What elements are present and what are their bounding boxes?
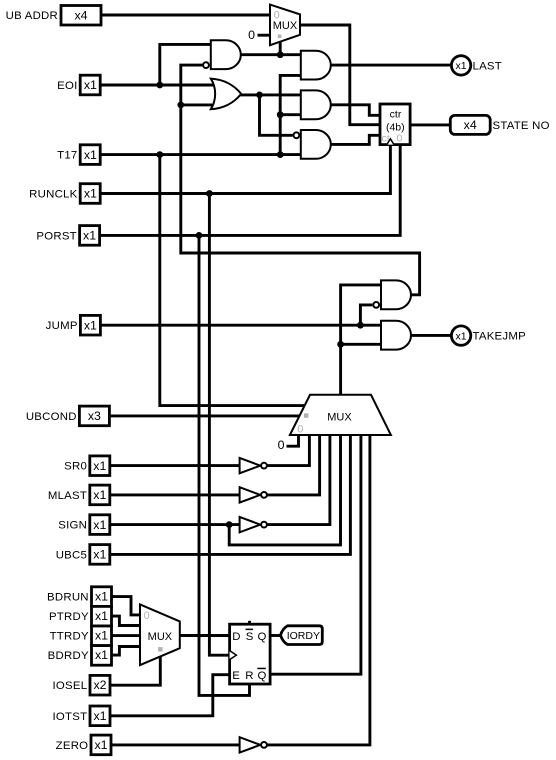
input box ZERO x1 (56, 735, 111, 755)
svg-text:IORDY: IORDY (287, 630, 320, 642)
and gate G6 (jump feedback, inverted lower input) (373, 280, 411, 309)
input box MLAST x1 (48, 485, 110, 505)
svg-text:0: 0 (278, 438, 285, 452)
wire small mux output to D (180, 634, 230, 637)
svg-text:SIGN: SIGN (58, 520, 87, 532)
svg-text:x1: x1 (84, 148, 97, 162)
wire and1 output to LAST (329, 64, 451, 67)
wire ZERO inverter output (267, 435, 370, 745)
svg-text:x1: x1 (84, 187, 97, 201)
wire big mux output net (337, 285, 381, 395)
output circle LAST x1 (451, 56, 502, 75)
mux U3 (BDRUN/PTRDY/TTRDY/BDRDY selector) (140, 604, 180, 665)
input box UBC5 x1 (56, 545, 110, 565)
wire SIGN net (108, 435, 341, 545)
wire PTRDY net (109, 614, 140, 626)
svg-text:LAST: LAST (473, 60, 503, 72)
svg-text:x4: x4 (74, 8, 87, 22)
svg-text:x3: x3 (88, 409, 101, 423)
input box SR0 x1 (64, 456, 110, 476)
inverter N4 (ZERO) (240, 737, 267, 752)
output box STATE NO x4 (450, 115, 549, 134)
input box TTRDY x1 (50, 626, 112, 646)
svg-text:R: R (245, 670, 253, 682)
svg-text:MUX: MUX (273, 20, 298, 32)
svg-text:D: D (232, 631, 240, 643)
svg-text:RUNCLK: RUNCLK (29, 189, 77, 201)
or gate G2 (211, 79, 241, 110)
inverter N3 (SIGN) (240, 517, 267, 532)
wire and2 output to ctr (329, 105, 380, 116)
wire SIGN inverter output (267, 435, 330, 525)
mux U2 (condition selector, 8 inputs) (290, 395, 391, 436)
and gate G7 (to TAKEJMP) (381, 321, 411, 350)
wire constant-0 stub to big mux (287, 435, 299, 446)
svg-text:PORST: PORST (36, 230, 77, 242)
svg-text:x1: x1 (456, 330, 467, 342)
wire ctr output to STATE NO (410, 123, 452, 127)
wire T17 net (98, 75, 306, 405)
svg-text:MUX: MUX (327, 411, 352, 423)
input box EOI x1 (57, 75, 100, 95)
wire JUMP net (98, 305, 381, 329)
svg-text:x2: x2 (93, 678, 106, 692)
svg-text:x1: x1 (84, 78, 97, 92)
wire BDRDY net (109, 647, 140, 658)
svg-text:Q: Q (258, 631, 267, 643)
svg-text:S: S (246, 631, 254, 643)
inverter N1 (SR0) (240, 458, 267, 473)
output tag IORDY (281, 626, 323, 645)
input box IOTST x1 (53, 706, 110, 726)
input box BDRUN x1 (47, 587, 111, 607)
wire IOSEL net to small mux select (108, 657, 160, 688)
svg-text:BDRUN: BDRUN (47, 592, 89, 604)
wire Q to IORDY (270, 634, 281, 637)
wire feedback net from jump-and (177, 65, 419, 295)
wire MLAST inverter output (267, 435, 320, 495)
wire or gate output net (239, 92, 301, 136)
and gate G1 (top left, inverted lower input) (203, 40, 241, 69)
svg-text:IOSEL: IOSEL (52, 680, 87, 692)
wire top mux select net (279, 42, 282, 55)
svg-text:0: 0 (248, 28, 255, 42)
wire RUNCLK net (98, 145, 390, 656)
svg-text:PTRDY: PTRDY (49, 611, 89, 623)
svg-text:x1: x1 (84, 318, 97, 332)
svg-text:x1: x1 (95, 648, 108, 662)
wire and-left output net (238, 51, 301, 58)
wire constant-0 stub to top mux (258, 34, 271, 37)
svg-text:x1: x1 (93, 518, 106, 532)
input box T17 x1 (57, 145, 100, 165)
input box UBCOND x3 (26, 406, 110, 426)
svg-text:x1: x1 (94, 738, 107, 752)
and gate G5 (inverted top input, to ctr) (294, 130, 331, 159)
svg-text:x1: x1 (93, 548, 106, 562)
svg-text:UBCOND: UBCOND (26, 411, 77, 423)
svg-text:x1: x1 (95, 609, 108, 623)
mux U1 (UB ADDR selector) (270, 5, 300, 46)
input box PORST x1 (36, 226, 99, 246)
input box JUMP x1 (46, 315, 101, 335)
flip-flop S pin stub (248, 621, 251, 624)
counter ctr (4b) (380, 104, 410, 145)
svg-text:x1: x1 (83, 229, 96, 243)
wire top mux output net (300, 25, 380, 125)
input box IOSEL x2 (52, 675, 110, 695)
svg-text:ctr: ctr (390, 109, 402, 121)
svg-text:TTRDY: TTRDY (50, 631, 89, 643)
svg-text:JUMP: JUMP (46, 320, 78, 332)
wire takejmp output (409, 334, 451, 337)
input box RUNCLK x1 (29, 184, 100, 204)
svg-text:x1: x1 (456, 60, 467, 72)
input box PTRDY x1 (49, 606, 112, 626)
svg-text:BDRDY: BDRDY (48, 650, 89, 662)
and gate G3 (to LAST) (301, 51, 331, 80)
wire PORST net (98, 145, 401, 696)
svg-text:x1: x1 (93, 709, 106, 723)
wire SR0 net (108, 464, 240, 468)
svg-text:TAKEJMP: TAKEJMP (473, 331, 526, 343)
input box SIGN x1 (58, 515, 110, 535)
svg-text:ZERO: ZERO (56, 740, 89, 752)
and gate G4 (middle, to ctr) (301, 90, 331, 119)
wire UBC5 net (108, 435, 351, 557)
svg-text:0: 0 (297, 423, 303, 435)
svg-text:x4: x4 (464, 118, 477, 132)
svg-text:UB ADDR: UB ADDR (6, 10, 58, 22)
svg-text:0: 0 (397, 133, 403, 145)
svg-text:MUX: MUX (148, 631, 173, 643)
svg-text:x1: x1 (93, 488, 106, 502)
svg-text:x1: x1 (95, 590, 108, 604)
svg-text:T17: T17 (57, 150, 77, 162)
svg-text:E: E (232, 670, 240, 682)
svg-text:Q: Q (258, 670, 267, 682)
svg-text:EOI: EOI (57, 80, 77, 92)
svg-text:MLAST: MLAST (48, 490, 87, 502)
wire and3 output to ctr (329, 135, 380, 144)
svg-text:x1: x1 (95, 629, 108, 643)
svg-text:x1: x1 (93, 459, 106, 473)
wire EOI net (98, 44, 214, 88)
svg-text:UBC5: UBC5 (56, 549, 87, 561)
wire TTRDY net (109, 634, 140, 638)
wire UBCOND net (107, 414, 302, 418)
input box BDRDY x1 (48, 646, 112, 666)
wire BDRUN net (109, 595, 140, 615)
input box UB ADDR x4 (6, 6, 101, 26)
wire Qbar to big mux (270, 435, 361, 674)
output circle TAKEJMP x1 (451, 326, 526, 345)
svg-text:SR0: SR0 (64, 461, 87, 473)
svg-text:STATE NO: STATE NO (493, 120, 550, 132)
inverter N2 (MLAST) (240, 487, 267, 502)
flip-flop U4 (D with S R E) (230, 624, 271, 684)
wire MLAST net (108, 493, 240, 497)
svg-text:IOTST: IOTST (53, 711, 88, 723)
svg-text:0: 0 (144, 610, 150, 622)
wire IOTST net to E (108, 675, 230, 718)
wire UB ADDR net (99, 13, 270, 17)
wire ZERO net (109, 743, 240, 747)
wire SR0 inverter output (267, 435, 310, 466)
